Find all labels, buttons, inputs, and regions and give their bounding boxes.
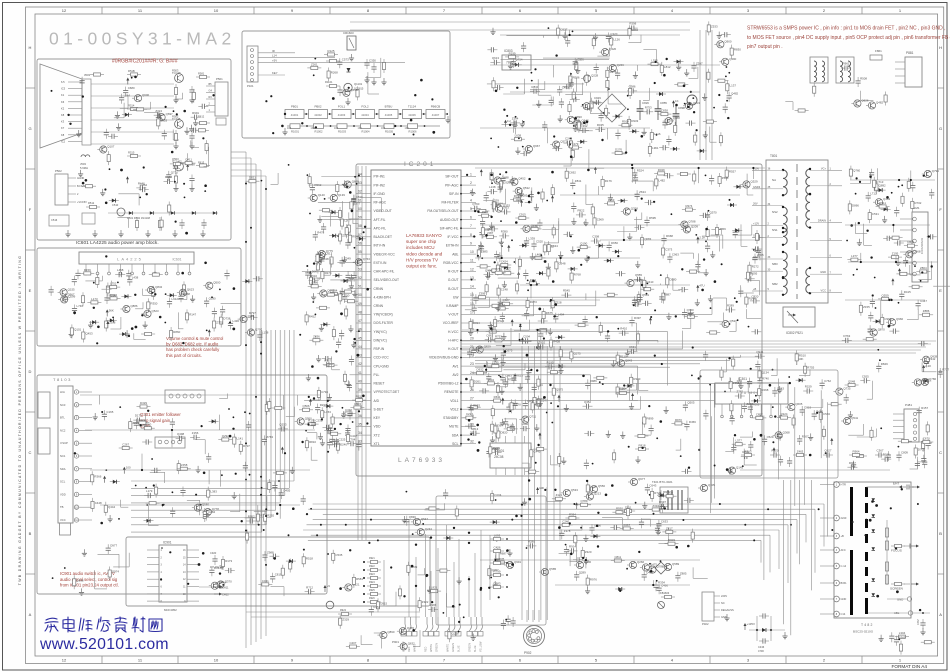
svg-text:to MOS FET source , pin4 DC su: to MOS FET source , pin4 DC supply input… — [747, 35, 950, 41]
svg-text:C692: C692 — [569, 171, 576, 175]
svg-text:Z577: Z577 — [354, 201, 361, 205]
svg-text:NB3: NB3 — [772, 262, 778, 266]
svg-text:Q697: Q697 — [166, 112, 173, 116]
svg-text:48: 48 — [358, 310, 362, 314]
svg-text:1K6: 1K6 — [287, 127, 292, 130]
svg-text:VCO-IREF: VCO-IREF — [443, 321, 459, 325]
svg-text:L763: L763 — [608, 198, 615, 202]
svg-text:L693: L693 — [494, 533, 501, 537]
svg-text:R914: R914 — [622, 120, 629, 124]
svg-text:Q289: Q289 — [579, 570, 586, 574]
svg-text:C240: C240 — [562, 519, 569, 523]
svg-text:R435: R435 — [597, 123, 604, 127]
svg-text:C: C — [29, 450, 32, 455]
svg-text:CPU-GND: CPU-GND — [374, 364, 390, 368]
svg-text:Z782: Z782 — [737, 390, 744, 394]
svg-text:L137: L137 — [730, 83, 737, 87]
svg-text:R512: R512 — [88, 201, 95, 205]
svg-text:J503: J503 — [80, 162, 86, 166]
svg-text:L460: L460 — [535, 252, 542, 256]
svg-text:Q453: Q453 — [86, 332, 93, 336]
svg-text:C667: C667 — [623, 523, 630, 527]
svg-text:Z195: Z195 — [892, 252, 899, 256]
svg-text:Q228: Q228 — [452, 631, 459, 635]
svg-text:26V: 26V — [753, 202, 758, 206]
svg-text:12: 12 — [470, 267, 474, 271]
svg-text:R924: R924 — [369, 581, 375, 584]
svg-text:R810: R810 — [309, 440, 316, 444]
svg-text:RESET: RESET — [374, 382, 385, 386]
svg-text:C165: C165 — [332, 438, 339, 442]
svg-text:R926: R926 — [369, 597, 375, 600]
svg-text:L577: L577 — [735, 439, 742, 443]
svg-text:R237: R237 — [320, 403, 327, 407]
svg-text:has problem check carefully: has problem check carefully — [166, 347, 220, 352]
svg-text:GREEN: GREEN — [452, 643, 455, 652]
svg-text:R514: R514 — [128, 104, 135, 108]
svg-text:Q608: Q608 — [352, 180, 359, 184]
svg-text:VIDEO/X-VCC: VIDEO/X-VCC — [374, 252, 396, 256]
svg-text:R922: R922 — [340, 609, 347, 612]
svg-text:D903: D903 — [668, 538, 675, 542]
svg-text:R613: R613 — [198, 161, 205, 165]
svg-text:Q101: Q101 — [74, 327, 81, 331]
svg-text:NC: NC — [721, 601, 725, 605]
svg-text:KEY: KEY — [374, 416, 381, 420]
svg-text:Q974: Q974 — [112, 570, 119, 574]
svg-text:Q944: Q944 — [219, 581, 226, 585]
svg-text:pin7 output pin .: pin7 output pin . — [747, 44, 783, 50]
svg-text:L458: L458 — [117, 268, 124, 272]
svg-text:Z229: Z229 — [133, 421, 140, 425]
svg-text:41003: 41003 — [338, 113, 346, 117]
svg-text:Q648: Q648 — [922, 377, 929, 381]
svg-text:VC+: VC+ — [821, 167, 827, 171]
svg-text:PIF-IN1: PIF-IN1 — [374, 175, 386, 179]
svg-text:R289: R289 — [727, 304, 734, 308]
svg-text:Q266: Q266 — [637, 560, 644, 564]
svg-text:C680: C680 — [128, 86, 135, 90]
svg-text:Z164: Z164 — [496, 201, 503, 205]
svg-text:+VCC5V: +VCC5V — [77, 201, 87, 204]
svg-text:Q541: Q541 — [851, 416, 858, 420]
svg-text:C510: C510 — [112, 203, 119, 207]
svg-text:TB: TB — [60, 505, 64, 509]
svg-text:VDL2: VDL2 — [450, 407, 458, 411]
svg-text:R887: R887 — [664, 293, 671, 297]
svg-text:62: 62 — [358, 190, 362, 194]
svg-text:Q1101: Q1101 — [354, 82, 363, 86]
svg-text:Q870: Q870 — [878, 328, 885, 332]
svg-text:P101: P101 — [247, 84, 254, 88]
svg-text:WHITE: WHITE — [447, 644, 450, 652]
svg-text:K3: K3 — [61, 120, 65, 124]
svg-text:RF-AGC: RF-AGC — [374, 201, 387, 205]
svg-text:GND: GND — [721, 615, 727, 619]
svg-text:R334: R334 — [214, 566, 221, 570]
svg-text:WHITE: WHITE — [430, 644, 433, 652]
svg-text:D: D — [29, 369, 32, 374]
svg-text:DRAIN: DRAIN — [818, 218, 826, 222]
svg-text:Q548: Q548 — [848, 379, 855, 383]
svg-text:C445: C445 — [534, 449, 541, 453]
svg-text:34: 34 — [358, 431, 362, 435]
svg-text:B-OUT: B-OUT — [448, 287, 458, 291]
svg-text:B151: B151 — [841, 581, 848, 585]
svg-text:Q134: Q134 — [762, 370, 769, 374]
svg-text:SCL: SCL — [60, 480, 66, 484]
svg-text:17: 17 — [470, 310, 474, 314]
svg-text:9: 9 — [470, 242, 472, 246]
svg-text:Q938: Q938 — [76, 578, 83, 582]
svg-text:R127: R127 — [324, 358, 331, 362]
svg-text:Z885: Z885 — [481, 249, 488, 253]
svg-text:R634: R634 — [110, 293, 117, 297]
svg-text:C431: C431 — [262, 579, 269, 583]
svg-text:EXTA-IN: EXTA-IN — [446, 244, 459, 248]
svg-text:C969: C969 — [597, 217, 604, 221]
svg-text:5.6MH: 5.6MH — [80, 166, 88, 170]
svg-text:8: 8 — [470, 233, 472, 237]
svg-text:AUDIO-OUT: AUDIO-OUT — [440, 218, 459, 222]
svg-text:L177: L177 — [590, 484, 597, 488]
svg-text:R280: R280 — [528, 540, 535, 544]
svg-text:L383: L383 — [210, 490, 217, 494]
svg-text:R151: R151 — [356, 395, 363, 399]
svg-text:R595: R595 — [649, 216, 656, 220]
svg-text:H: H — [939, 45, 942, 50]
svg-text:Z789: Z789 — [495, 267, 502, 271]
svg-text:includes MCU: includes MCU — [406, 245, 435, 250]
svg-text:35: 35 — [358, 423, 362, 427]
svg-text:KB1603: KB1603 — [660, 591, 670, 595]
svg-text:R922: R922 — [369, 565, 375, 568]
svg-text:C631: C631 — [629, 345, 636, 349]
svg-text:G: G — [28, 126, 31, 131]
svg-text:R737: R737 — [243, 444, 250, 448]
svg-text:C794: C794 — [321, 390, 328, 394]
svg-text:this part of circuits.: this part of circuits. — [166, 353, 202, 358]
svg-text:C535: C535 — [335, 553, 342, 557]
svg-text:L138: L138 — [489, 185, 496, 189]
svg-text:C267: C267 — [122, 442, 129, 446]
svg-text:+B: +B — [753, 287, 757, 291]
svg-text:L153: L153 — [324, 410, 331, 414]
svg-text:2.2K: 2.2K — [699, 235, 705, 239]
svg-text:EW: EW — [453, 295, 459, 299]
svg-text:D821: D821 — [249, 176, 256, 180]
svg-text:D763: D763 — [843, 334, 850, 338]
svg-text:59: 59 — [358, 216, 362, 220]
svg-text:Q677: Q677 — [638, 477, 645, 481]
svg-text:Q529: Q529 — [751, 179, 758, 183]
svg-text:56: 56 — [358, 242, 362, 246]
svg-text:Q763: Q763 — [363, 257, 370, 261]
svg-text:R550: R550 — [616, 507, 623, 511]
svg-text:D329: D329 — [140, 401, 147, 405]
svg-text:C634: C634 — [551, 244, 558, 248]
svg-text:Q735: Q735 — [843, 387, 850, 391]
svg-text:2: 2 — [470, 181, 472, 185]
svg-text:XT2: XT2 — [374, 433, 380, 437]
svg-text:P901: P901 — [392, 640, 399, 644]
svg-text:GREEN: GREEN — [436, 643, 439, 652]
svg-text:Q843: Q843 — [625, 358, 632, 362]
svg-text:R899: R899 — [647, 417, 654, 421]
svg-text:R697: R697 — [659, 500, 666, 504]
svg-text:D866: D866 — [852, 203, 859, 207]
svg-text:K8: K8 — [61, 113, 65, 117]
svg-text:L821: L821 — [431, 586, 438, 590]
svg-text:T1124: T1124 — [408, 105, 416, 109]
svg-text:C855: C855 — [660, 101, 667, 105]
svg-text:FM-OUT/SEL/X-OUT: FM-OUT/SEL/X-OUT — [427, 209, 458, 213]
svg-text:R753: R753 — [495, 335, 502, 339]
svg-text:3503: 3503 — [84, 73, 90, 77]
svg-text:Q710: Q710 — [171, 170, 178, 174]
svg-text:C583: C583 — [823, 412, 830, 416]
svg-text:R623: R623 — [516, 374, 523, 378]
svg-text:IC901: IC901 — [163, 541, 172, 545]
svg-text:L504: L504 — [488, 378, 495, 382]
svg-text:R373: R373 — [530, 300, 537, 304]
svg-text:R524: R524 — [637, 169, 644, 173]
svg-text:RED: RED — [425, 647, 428, 652]
svg-text:YIN(YCBCR): YIN(YCBCR) — [374, 313, 393, 317]
svg-text:Q589: Q589 — [672, 562, 679, 566]
svg-text:1: 1 — [470, 173, 472, 177]
svg-text:STANDBY: STANDBY — [443, 416, 459, 420]
svg-text:R581: R581 — [198, 72, 205, 76]
svg-text:INTV-IN: INTV-IN — [374, 244, 386, 248]
svg-text:R320: R320 — [633, 377, 640, 381]
svg-text:NC3: NC3 — [60, 403, 66, 407]
svg-text:45: 45 — [358, 336, 362, 340]
svg-text:IC601: IC601 — [172, 258, 181, 262]
svg-text:R307: R307 — [802, 435, 809, 439]
svg-text:220V: 220V — [721, 594, 727, 598]
svg-text:L812: L812 — [664, 65, 671, 69]
svg-text:R612: R612 — [198, 115, 205, 119]
svg-text:S-DET: S-DET — [374, 407, 384, 411]
svg-text:Z378: Z378 — [564, 529, 571, 533]
svg-text:10: 10 — [470, 250, 474, 254]
svg-text:SCREEN: SCREEN — [890, 587, 903, 591]
svg-text:Z506: Z506 — [722, 176, 729, 180]
svg-text:GREEN: GREEN — [469, 643, 472, 652]
svg-text:Q556: Q556 — [598, 484, 605, 488]
svg-text:LFA: LFA — [60, 390, 65, 394]
svg-text:Z634: Z634 — [639, 190, 646, 194]
svg-text:D948: D948 — [531, 223, 538, 227]
svg-text:24C08: 24C08 — [494, 455, 504, 459]
svg-text:video decode and: video decode and — [406, 251, 443, 256]
svg-text:K2: K2 — [61, 106, 65, 110]
svg-text:C308: C308 — [592, 235, 599, 239]
svg-text:Z885: Z885 — [680, 571, 687, 575]
svg-text:GND: GND — [897, 598, 903, 602]
svg-text:SEL/VIDEO-OUT: SEL/VIDEO-OUT — [374, 278, 399, 282]
svg-text:P502: P502 — [55, 169, 62, 173]
svg-text:R410: R410 — [620, 327, 627, 331]
svg-text:NS2: NS2 — [772, 210, 778, 214]
svg-text:C504: C504 — [523, 335, 530, 339]
svg-text:D915: D915 — [380, 601, 387, 605]
svg-text:C670: C670 — [923, 436, 930, 440]
svg-text:AGND: AGND — [77, 177, 84, 180]
svg-text:49: 49 — [358, 302, 362, 306]
svg-text:Z261: Z261 — [311, 62, 318, 66]
svg-text:SIF-APC-FIL: SIF-APC-FIL — [440, 226, 459, 230]
svg-text:+5V: +5V — [272, 58, 277, 62]
svg-text:27: 27 — [470, 397, 474, 401]
svg-text:Q523: Q523 — [152, 309, 159, 313]
svg-text:B: B — [939, 531, 942, 536]
svg-text:P500X/BG-L2: P500X/BG-L2 — [438, 382, 459, 386]
svg-text:11: 11 — [470, 259, 474, 263]
svg-text:R456: R456 — [689, 420, 696, 424]
svg-text:Z463: Z463 — [797, 449, 804, 453]
svg-text:CHR-APC-FIL: CHR-APC-FIL — [374, 270, 395, 274]
svg-text:14: 14 — [470, 285, 474, 289]
svg-text:Q605: Q605 — [795, 402, 802, 406]
svg-text:R-OUT: R-OUT — [448, 270, 458, 274]
svg-text:10: 10 — [214, 658, 219, 663]
svg-text:1K6: 1K6 — [311, 127, 316, 130]
svg-text:39: 39 — [358, 388, 362, 392]
svg-text:Z337: Z337 — [652, 504, 659, 508]
svg-text:C447: C447 — [350, 434, 357, 438]
svg-text:L392: L392 — [632, 28, 639, 32]
svg-text:55: 55 — [358, 250, 362, 254]
svg-text:44: 44 — [358, 345, 362, 349]
svg-text:IR: IR — [272, 49, 275, 53]
svg-text:T801: T801 — [770, 154, 777, 158]
svg-text:C826: C826 — [642, 101, 649, 105]
svg-text:GND: GND — [820, 270, 826, 274]
svg-text:01-00SY31-MA2: 01-00SY31-MA2 — [49, 29, 236, 49]
svg-text:D880: D880 — [165, 175, 172, 179]
svg-text:IC2: IC2 — [61, 139, 66, 143]
svg-text:R1006: R1006 — [409, 130, 417, 134]
svg-text:42: 42 — [358, 362, 362, 366]
svg-text:IC802 P521: IC802 P521 — [786, 331, 803, 335]
svg-text:Q760: Q760 — [853, 169, 860, 173]
svg-text:R581: R581 — [356, 577, 363, 581]
svg-text:R374: R374 — [685, 204, 692, 208]
svg-text:60: 60 — [358, 207, 362, 211]
svg-text:2.2K: 2.2K — [925, 364, 931, 368]
svg-text:FOL2: FOL2 — [361, 105, 369, 109]
svg-text:FOCUSPACK: FOCUSPACK — [920, 238, 924, 254]
svg-text:Q568: Q568 — [913, 249, 920, 253]
svg-text:C811: C811 — [614, 555, 621, 559]
svg-text:L436: L436 — [233, 319, 240, 323]
svg-text:Q797: Q797 — [255, 328, 262, 332]
svg-text:41002: 41002 — [314, 113, 322, 117]
svg-text:Q281: Q281 — [248, 314, 255, 318]
svg-text:Q368: Q368 — [783, 430, 790, 434]
svg-text:4.43M-DPH: 4.43M-DPH — [374, 295, 392, 299]
svg-text:L494: L494 — [558, 312, 565, 316]
svg-text:2240: 2240 — [841, 516, 847, 520]
svg-text:R390: R390 — [501, 230, 508, 234]
svg-text:L138: L138 — [262, 331, 269, 335]
svg-text:R199: R199 — [509, 51, 516, 55]
svg-text:L961: L961 — [652, 146, 659, 150]
svg-text:R125: R125 — [328, 49, 335, 53]
svg-text:L640: L640 — [522, 422, 529, 426]
svg-text:+135V: +135V — [747, 622, 756, 626]
svg-text:R159: R159 — [805, 385, 812, 389]
svg-text:R110: R110 — [620, 355, 627, 359]
svg-text:C803: C803 — [354, 402, 361, 406]
svg-text:ABL: ABL — [452, 252, 458, 256]
svg-text:20: 20 — [470, 336, 474, 340]
svg-text:FORMAT DIN A4: FORMAT DIN A4 — [891, 664, 927, 669]
svg-text:Z399: Z399 — [479, 292, 486, 296]
svg-text:LA76933: LA76933 — [398, 457, 445, 464]
svg-text:super one chip: super one chip — [406, 239, 437, 244]
svg-text:Q711: Q711 — [529, 415, 536, 419]
svg-text:R1101: R1101 — [325, 80, 333, 84]
svg-text:R195: R195 — [547, 361, 554, 365]
svg-text:SIF-OUT: SIF-OUT — [445, 175, 458, 179]
svg-text:C712: C712 — [535, 402, 542, 406]
svg-text:C762: C762 — [824, 379, 831, 383]
svg-text:VIDEO/V/BUS-GND: VIDEO/V/BUS-GND — [429, 356, 459, 360]
svg-text:H-VCC: H-VCC — [448, 330, 459, 334]
svg-text:G-OUT: G-OUT — [448, 278, 459, 282]
svg-text:C627: C627 — [560, 28, 567, 32]
svg-text:C925: C925 — [862, 374, 869, 378]
svg-text:K1: K1 — [61, 93, 65, 97]
svg-text:FOL1: FOL1 — [338, 105, 346, 109]
svg-text:Q892: Q892 — [879, 183, 886, 187]
svg-text:R991: R991 — [192, 111, 199, 115]
svg-text:+12V: +12V — [753, 221, 759, 225]
svg-text:4700: 4700 — [758, 649, 764, 653]
svg-text:C436: C436 — [758, 645, 765, 649]
svg-text:R366: R366 — [94, 474, 101, 478]
svg-text:R1001: R1001 — [291, 130, 299, 134]
svg-text:P481: P481 — [905, 403, 912, 407]
svg-text:TWB DRAWING GADGET BY COMMUNIC: TWB DRAWING GADGET BY COMMUNICATED TO UN… — [18, 255, 22, 586]
svg-text:A/D: A/D — [374, 399, 380, 403]
svg-text:R267: R267 — [619, 387, 626, 391]
svg-text:Z121: Z121 — [556, 493, 563, 497]
svg-text:Q632: Q632 — [408, 641, 415, 645]
svg-text:MCF4052: MCF4052 — [164, 608, 177, 612]
svg-text:Q505: Q505 — [687, 401, 694, 405]
svg-text:CRNN: CRNN — [374, 304, 384, 308]
svg-text:RED: RED — [408, 647, 411, 652]
svg-text:R921: R921 — [369, 557, 375, 560]
svg-text:SDA: SDA — [60, 467, 66, 471]
svg-text:PIF-AGC: PIF-AGC — [445, 183, 459, 187]
svg-text:V-RAMP: V-RAMP — [446, 304, 459, 308]
svg-text:Q358: Q358 — [631, 207, 638, 211]
svg-text:1K: 1K — [675, 99, 679, 103]
svg-text:Q482: Q482 — [731, 91, 738, 95]
svg-text:Q627: Q627 — [824, 449, 831, 453]
svg-text:C929: C929 — [594, 96, 601, 100]
svg-text:R515: R515 — [128, 151, 135, 155]
svg-text:C437: C437 — [917, 619, 920, 625]
svg-text:41007: 41007 — [432, 113, 440, 117]
svg-text:Q317: Q317 — [325, 251, 332, 255]
svg-text:R397: R397 — [634, 316, 641, 320]
